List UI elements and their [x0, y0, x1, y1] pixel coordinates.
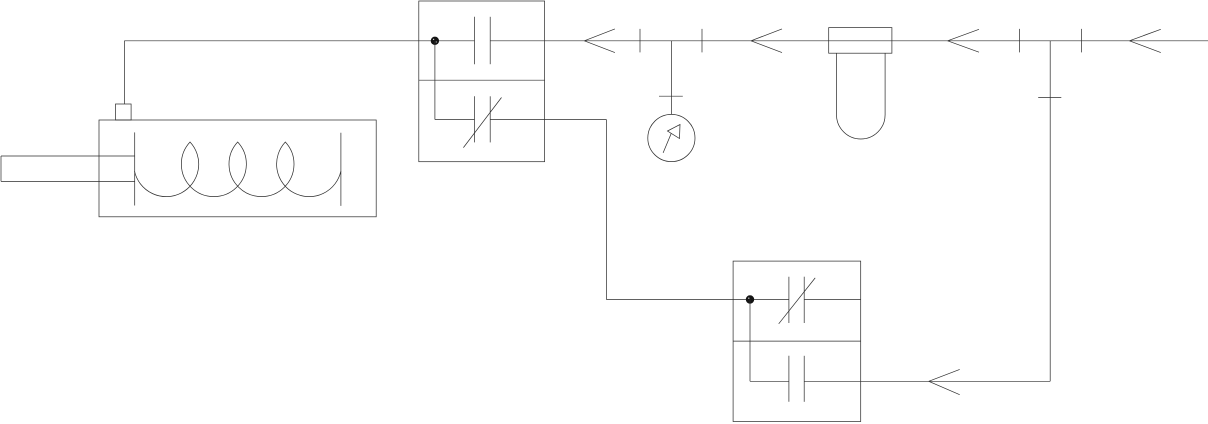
wire: top main air line	[124, 40, 1208, 42]
filter F1 bowl	[837, 53, 886, 139]
piston	[134, 132, 136, 205]
tick: connector on right drop	[1038, 96, 1061, 98]
tick: line connector at x640	[639, 29, 641, 53]
piston rod	[1, 156, 135, 181]
pressure gauge G1	[648, 114, 695, 161]
wire: gauge branch drop	[671, 41, 673, 114]
throttle adjustment slash V1	[463, 98, 501, 148]
junction dot at valve V1 inlet	[431, 37, 439, 45]
junction dot at valve V2 inlet	[746, 295, 754, 303]
arrow: quick coupling on bottom line	[929, 369, 960, 394]
throttle plates in V1 bottom cell	[475, 96, 491, 142]
arrow: quick coupling far right	[1129, 29, 1160, 52]
wire: V2 top cell right stub	[804, 299, 861, 301]
wire: V1 bottom cell horizontal	[435, 119, 607, 121]
wire: vertical drop from top line to cylinder port	[123, 41, 125, 104]
flow control valve V1 outline	[419, 1, 545, 162]
throttle plates in V2 top cell	[789, 277, 804, 323]
wire: V2 bottom cell horizontal	[750, 380, 1050, 382]
throttle adjustment slash V2	[779, 278, 816, 324]
wire: V2 internal branch from junction down	[749, 300, 751, 382]
tick: connector on gauge branch	[659, 95, 683, 97]
arrow: quick coupling right of filter	[948, 29, 979, 52]
arrow: quick coupling mid	[751, 29, 782, 53]
arrow: quick coupling on top line left	[584, 29, 615, 53]
check valve plates in V2 bottom cell	[789, 356, 804, 402]
check valve plates in V1 top cell	[475, 17, 491, 64]
spring end plate	[340, 133, 342, 206]
tick: line connector at x1019	[1019, 29, 1021, 53]
flow control valve V2 outline	[733, 261, 861, 421]
tick: line connector at x1081	[1081, 29, 1083, 53]
tick: line connector at x702	[701, 29, 703, 53]
wire: right vertical supply drop	[1049, 41, 1051, 382]
cylinder port block	[116, 104, 132, 120]
wire: drop from V1 to lower valve V2	[606, 120, 789, 300]
cylinder C1 body	[99, 120, 376, 217]
filter F1 head	[829, 28, 892, 54]
wire: V1 internal branch from junction down	[434, 41, 436, 120]
spring return coil	[135, 142, 341, 197]
